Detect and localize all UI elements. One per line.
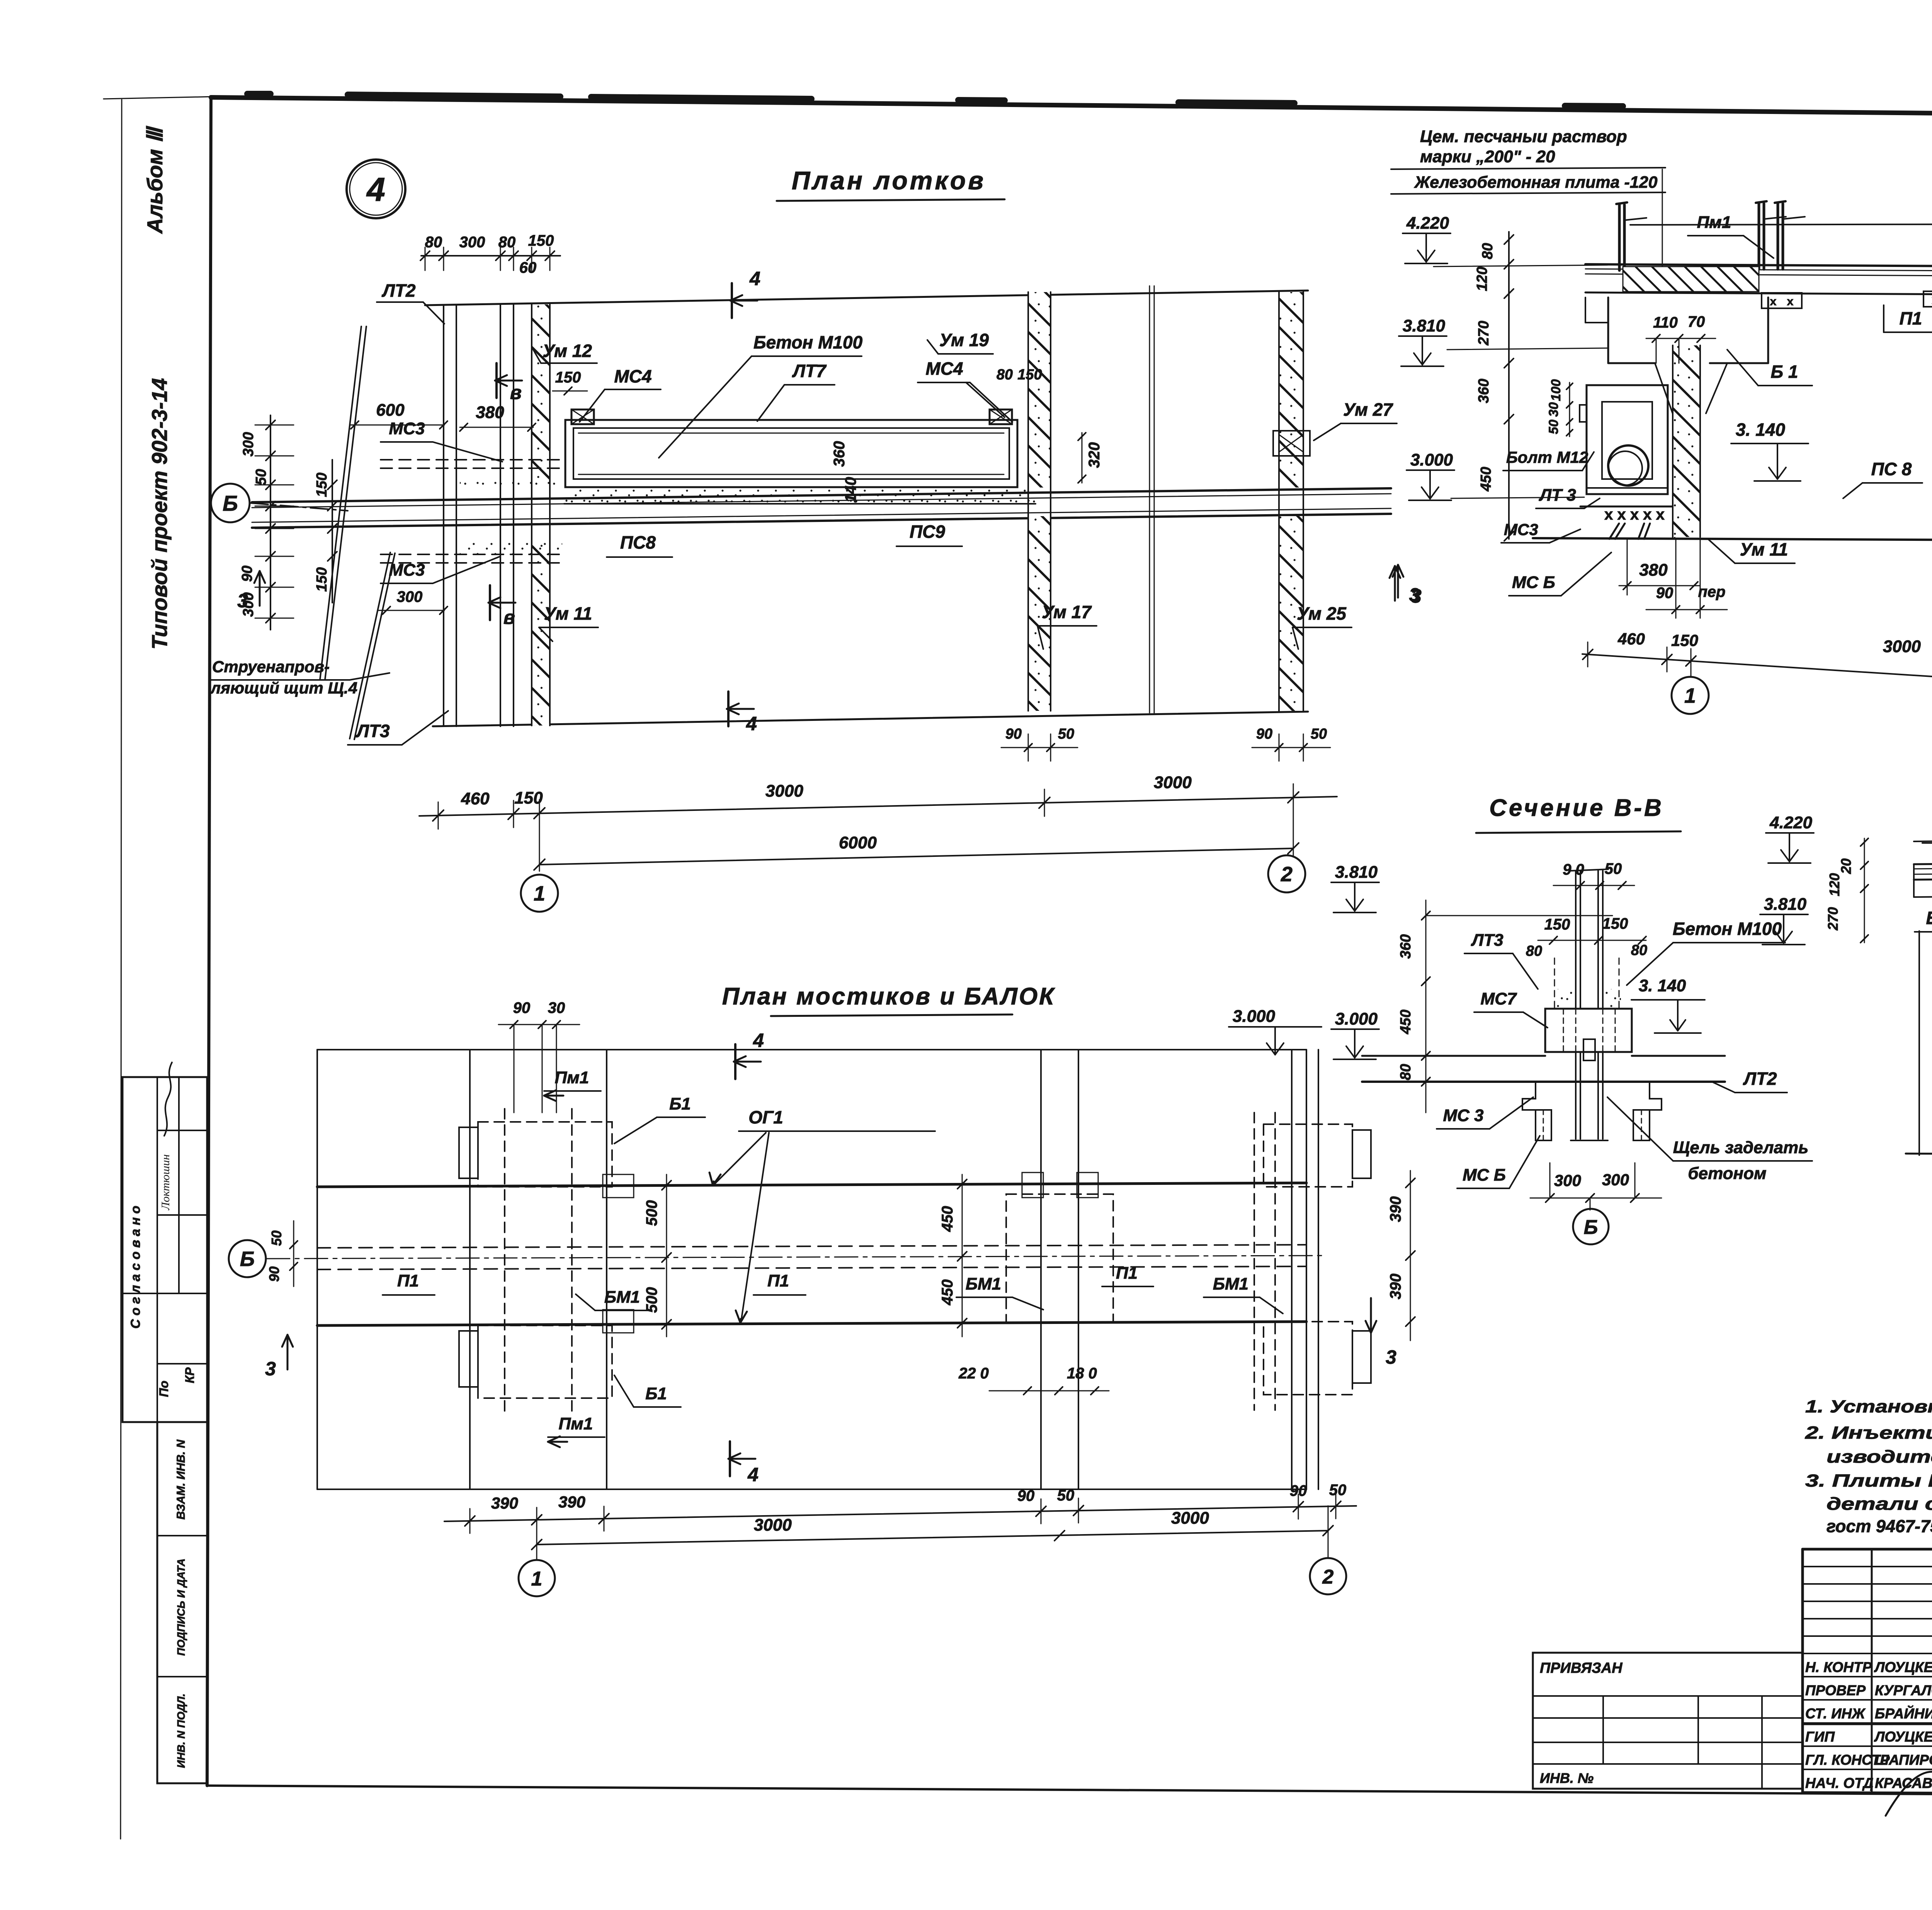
svg-text:МС4: МС4 bbox=[925, 359, 963, 379]
svg-text:6000: 6000 bbox=[839, 833, 877, 852]
svg-text:80: 80 bbox=[1526, 943, 1542, 959]
svg-text:2: 2 bbox=[1281, 863, 1293, 886]
svg-text:Б: Б bbox=[223, 491, 238, 515]
svg-text:3. Плиты П1 привариваются: 3. Плиты П1 привариваются к балкам через… bbox=[1805, 1471, 1932, 1490]
svg-text:ИНВ. N ПОДЛ.: ИНВ. N ПОДЛ. bbox=[175, 1694, 187, 1768]
svg-text:ЛТ2: ЛТ2 bbox=[381, 280, 416, 301]
svg-text:30: 30 bbox=[1546, 402, 1561, 417]
svg-text:КУРГАЛОВА: КУРГАЛОВА bbox=[1875, 1682, 1932, 1698]
svg-text:Н. КОНТР: Н. КОНТР bbox=[1805, 1659, 1872, 1675]
svg-text:П1: П1 bbox=[397, 1271, 419, 1290]
svg-text:ОГ1: ОГ1 bbox=[748, 1107, 783, 1127]
svg-text:Типовой проект 902-3-14: Типовой проект 902-3-14 bbox=[147, 378, 172, 650]
svg-text:70: 70 bbox=[1688, 313, 1705, 330]
svg-text:150: 150 bbox=[1602, 915, 1628, 932]
svg-text:ЛТ 3: ЛТ 3 bbox=[1539, 486, 1576, 505]
svg-text:х: х bbox=[1770, 295, 1777, 308]
svg-text:3.000: 3.000 bbox=[1410, 450, 1453, 469]
svg-text:600: 600 bbox=[376, 401, 405, 420]
svg-text:П1: П1 bbox=[1116, 1264, 1138, 1283]
svg-text:Пм1: Пм1 bbox=[559, 1414, 593, 1433]
svg-text:МС3: МС3 bbox=[1504, 520, 1538, 539]
svg-text:50: 50 bbox=[1546, 420, 1561, 434]
svg-text:1: 1 bbox=[534, 882, 545, 905]
svg-text:План лотков: План лотков bbox=[792, 166, 986, 195]
svg-text:марки „200" - 20: марки „200" - 20 bbox=[1420, 147, 1555, 166]
svg-text:360: 360 bbox=[1476, 379, 1492, 403]
svg-text:3: 3 bbox=[1409, 585, 1420, 605]
svg-text:Локтюшин: Локтюшин bbox=[159, 1154, 172, 1210]
svg-text:СТ. ИНЖ: СТ. ИНЖ bbox=[1805, 1706, 1866, 1721]
svg-text:ВЗАМ. ИНВ. N: ВЗАМ. ИНВ. N bbox=[175, 1439, 187, 1519]
svg-text:390: 390 bbox=[558, 1493, 585, 1511]
svg-text:90: 90 bbox=[513, 999, 531, 1016]
svg-text:в: в bbox=[510, 382, 522, 403]
svg-text:НАЧ. ОТД: НАЧ. ОТД bbox=[1805, 1775, 1873, 1791]
svg-text:Пм1: Пм1 bbox=[555, 1068, 589, 1087]
svg-text:390: 390 bbox=[1387, 1196, 1404, 1222]
svg-text:МС4: МС4 bbox=[614, 366, 651, 386]
svg-text:140: 140 bbox=[842, 477, 859, 503]
svg-text:500: 500 bbox=[643, 1200, 660, 1226]
svg-text:ПС8: ПС8 bbox=[620, 532, 656, 552]
svg-text:30: 30 bbox=[548, 999, 565, 1016]
svg-text:300: 300 bbox=[397, 588, 423, 605]
svg-text:Болт М12: Болт М12 bbox=[1506, 448, 1588, 466]
svg-text:Струенапров-: Струенапров- bbox=[212, 658, 330, 676]
svg-text:18 0: 18 0 bbox=[1067, 1365, 1097, 1382]
svg-text:ШАПИРО: ШАПИРО bbox=[1875, 1752, 1932, 1768]
svg-text:390: 390 bbox=[1387, 1274, 1404, 1300]
svg-text:4: 4 bbox=[747, 1464, 759, 1485]
svg-text:КР: КР bbox=[183, 1367, 197, 1383]
svg-text:360: 360 bbox=[831, 441, 848, 467]
svg-text:ЛТ3: ЛТ3 bbox=[1471, 931, 1503, 950]
svg-text:ПРИВЯЗАН: ПРИВЯЗАН bbox=[1540, 1660, 1623, 1676]
svg-text:Б1: Б1 bbox=[645, 1384, 667, 1403]
svg-text:Б: Б bbox=[1584, 1216, 1598, 1239]
svg-text:120: 120 bbox=[1827, 873, 1842, 896]
svg-text:Пм1: Пм1 bbox=[1697, 213, 1731, 232]
svg-text:Ум 17: Ум 17 bbox=[1042, 602, 1092, 622]
svg-text:80: 80 bbox=[425, 234, 442, 251]
svg-text:ЛТ2: ЛТ2 bbox=[1743, 1069, 1777, 1089]
svg-text:3.810: 3.810 bbox=[1764, 895, 1807, 914]
svg-text:2. Инъектирование стыка б: 2. Инъектирование стыка балки Б1 со стен… bbox=[1805, 1423, 1932, 1443]
svg-text:300: 300 bbox=[240, 432, 257, 456]
svg-text:1: 1 bbox=[531, 1568, 543, 1590]
svg-text:ПОДПИСЬ И ДАТА: ПОДПИСЬ И ДАТА bbox=[175, 1558, 187, 1656]
svg-text:4.220: 4.220 bbox=[1406, 214, 1449, 233]
svg-text:С о г л а с о в а н о: С о г л а с о в а н о bbox=[128, 1206, 143, 1329]
svg-text:100: 100 bbox=[1549, 379, 1563, 401]
svg-text:3.810: 3.810 bbox=[1403, 316, 1446, 335]
svg-text:4: 4 bbox=[749, 268, 760, 289]
svg-text:50: 50 bbox=[1058, 726, 1074, 742]
svg-text:бетоном: бетоном bbox=[1688, 1164, 1766, 1183]
svg-text:МС 3: МС 3 bbox=[1443, 1106, 1483, 1125]
svg-text:22 0: 22 0 bbox=[958, 1365, 989, 1382]
svg-text:80: 80 bbox=[1480, 243, 1496, 259]
svg-text:90: 90 bbox=[1005, 726, 1022, 742]
svg-text:БМ1: БМ1 bbox=[1213, 1274, 1248, 1293]
svg-text:детали сварным швом hш=: детали сварным швом hш=6мм электродом ти… bbox=[1827, 1494, 1932, 1514]
svg-text:3000: 3000 bbox=[1171, 1509, 1209, 1528]
svg-text:80: 80 bbox=[1631, 942, 1647, 958]
svg-text:3: 3 bbox=[1386, 1346, 1396, 1368]
svg-text:500: 500 bbox=[643, 1287, 660, 1313]
svg-text:Б: Б bbox=[240, 1247, 255, 1271]
svg-text:гост 9467-75: гост 9467-75 bbox=[1827, 1516, 1932, 1536]
svg-text:150: 150 bbox=[1544, 916, 1570, 933]
svg-text:90: 90 bbox=[1656, 585, 1673, 602]
svg-text:3000: 3000 bbox=[1154, 773, 1192, 792]
svg-text:3. 140: 3. 140 bbox=[1639, 976, 1686, 995]
svg-text:50: 50 bbox=[253, 469, 269, 485]
svg-text:80: 80 bbox=[1398, 1064, 1414, 1080]
svg-text:3: 3 bbox=[265, 1358, 276, 1380]
svg-text:ПС9: ПС9 bbox=[910, 522, 945, 542]
svg-text:3000: 3000 bbox=[765, 782, 803, 800]
svg-text:в: в bbox=[503, 607, 515, 628]
svg-text:Железобетонная плита -120: Железобетонная плита -120 bbox=[1414, 173, 1658, 192]
svg-text:450: 450 bbox=[1478, 467, 1494, 491]
svg-text:Бетон М100: Бетон М100 bbox=[753, 332, 863, 352]
svg-text:360: 360 bbox=[1398, 934, 1414, 958]
svg-text:80: 80 bbox=[997, 367, 1013, 383]
svg-text:x x x x x: x x x x x bbox=[1604, 506, 1665, 523]
svg-text:Ум 19: Ум 19 bbox=[939, 330, 989, 350]
svg-text:150: 150 bbox=[314, 567, 330, 591]
svg-text:120: 120 bbox=[1474, 267, 1490, 291]
svg-text:50: 50 bbox=[1057, 1487, 1075, 1504]
svg-text:ляющий щит Щ.4: ляющий щит Щ.4 bbox=[210, 679, 357, 697]
svg-text:50: 50 bbox=[1311, 726, 1327, 742]
svg-text:Б 1: Б 1 bbox=[1771, 362, 1798, 382]
svg-text:пер: пер bbox=[1698, 583, 1725, 600]
svg-text:380: 380 bbox=[1639, 561, 1668, 579]
svg-text:ПРОВЕР: ПРОВЕР bbox=[1805, 1682, 1866, 1698]
svg-text:90: 90 bbox=[1256, 726, 1272, 742]
svg-text:Ум 11: Ум 11 bbox=[1740, 539, 1788, 559]
svg-text:МС3: МС3 bbox=[389, 419, 425, 438]
svg-text:3000: 3000 bbox=[754, 1516, 792, 1534]
svg-text:110: 110 bbox=[1653, 314, 1678, 331]
svg-text:БМ1: БМ1 bbox=[966, 1274, 1001, 1293]
svg-text:Ум 12: Ум 12 bbox=[543, 341, 592, 361]
svg-text:300: 300 bbox=[1554, 1171, 1581, 1190]
svg-text:Цем. песчаныи раствор: Цем. песчаныи раствор bbox=[1420, 127, 1627, 146]
svg-text:90: 90 bbox=[1290, 1482, 1307, 1499]
svg-text:4: 4 bbox=[746, 713, 757, 734]
svg-text:3.000: 3.000 bbox=[1335, 1009, 1378, 1028]
svg-text:3000: 3000 bbox=[1883, 637, 1921, 656]
svg-text:150: 150 bbox=[314, 472, 330, 497]
svg-text:460: 460 bbox=[461, 789, 490, 808]
svg-text:Ум 11: Ум 11 bbox=[544, 603, 592, 624]
svg-text:450: 450 bbox=[939, 1280, 956, 1306]
svg-text:изводится через тампонажн: изводится через тампонажные трубки в бал… bbox=[1827, 1447, 1932, 1466]
svg-text:3: 3 bbox=[237, 590, 248, 612]
svg-text:150: 150 bbox=[528, 232, 554, 249]
svg-text:450: 450 bbox=[939, 1206, 956, 1232]
svg-text:Ум 25: Ум 25 bbox=[1297, 603, 1347, 624]
svg-text:50: 50 bbox=[1329, 1482, 1347, 1499]
svg-text:3. 140: 3. 140 bbox=[1736, 420, 1785, 440]
svg-text:ЛОУЦКЕР: ЛОУЦКЕР bbox=[1874, 1659, 1932, 1675]
svg-text:МС Б: МС Б bbox=[1463, 1166, 1506, 1184]
svg-text:4: 4 bbox=[753, 1030, 764, 1051]
svg-text:План мостиков и БАЛОК: План мостиков и БАЛОК bbox=[722, 983, 1056, 1010]
svg-text:320: 320 bbox=[1086, 442, 1103, 468]
svg-text:Б1: Б1 bbox=[669, 1094, 691, 1113]
svg-text:х: х bbox=[1787, 295, 1794, 308]
svg-text:БМ1: БМ1 bbox=[604, 1288, 640, 1307]
svg-text:П1: П1 bbox=[1900, 308, 1922, 328]
svg-text:ЛТ7: ЛТ7 bbox=[792, 361, 827, 381]
svg-text:150: 150 bbox=[1017, 367, 1042, 383]
svg-text:Щель заделать: Щель заделать bbox=[1673, 1138, 1808, 1157]
svg-text:3.810: 3.810 bbox=[1335, 863, 1378, 882]
svg-text:ЛОУЦКЕР: ЛОУЦКЕР bbox=[1874, 1729, 1932, 1745]
svg-text:ГИП: ГИП bbox=[1805, 1729, 1835, 1745]
svg-text:1. Установка балок Б1 произ: 1. Установка балок Б1 производится с тща… bbox=[1805, 1397, 1932, 1416]
svg-text:390: 390 bbox=[491, 1494, 518, 1512]
svg-text:80: 80 bbox=[498, 234, 516, 251]
svg-text:ИНВ. №: ИНВ. № bbox=[1540, 1770, 1594, 1786]
svg-text:450: 450 bbox=[1398, 1009, 1414, 1034]
svg-text:Сечение В-В: Сечение В-В bbox=[1489, 795, 1664, 821]
svg-text:ПС 8: ПС 8 bbox=[1871, 459, 1912, 479]
svg-text:Б 1: Б 1 bbox=[1926, 908, 1932, 928]
svg-text:60: 60 bbox=[519, 259, 537, 276]
svg-text:БРАЙНИНА: БРАЙНИНА bbox=[1875, 1705, 1932, 1721]
svg-text:По: По bbox=[157, 1381, 171, 1397]
svg-text:150: 150 bbox=[1671, 631, 1698, 649]
svg-text:460: 460 bbox=[1617, 630, 1645, 648]
svg-text:3.000: 3.000 bbox=[1233, 1007, 1276, 1026]
svg-text:1: 1 bbox=[1684, 684, 1696, 707]
svg-text:МС3: МС3 bbox=[389, 561, 425, 579]
svg-text:МС7: МС7 bbox=[1481, 989, 1517, 1008]
svg-text:50: 50 bbox=[269, 1230, 284, 1246]
svg-text:4.220: 4.220 bbox=[1769, 813, 1813, 832]
svg-text:270: 270 bbox=[1825, 907, 1841, 931]
svg-text:90: 90 bbox=[239, 566, 255, 582]
svg-text:90: 90 bbox=[1017, 1487, 1035, 1504]
svg-text:90: 90 bbox=[266, 1266, 282, 1282]
svg-text:270: 270 bbox=[1476, 321, 1492, 345]
svg-text:Ум 27: Ум 27 bbox=[1343, 399, 1393, 420]
svg-text:П1: П1 bbox=[767, 1271, 789, 1290]
svg-text:Бетон М100: Бетон М100 bbox=[1673, 919, 1782, 939]
svg-text:Альбом Ⅲ: Альбом Ⅲ bbox=[143, 126, 167, 234]
svg-text:150: 150 bbox=[555, 369, 581, 386]
svg-text:4: 4 bbox=[366, 171, 385, 208]
svg-text:2: 2 bbox=[1322, 1566, 1334, 1588]
svg-text:20: 20 bbox=[1838, 858, 1854, 874]
svg-text:300: 300 bbox=[1602, 1171, 1629, 1189]
svg-text:150: 150 bbox=[514, 788, 543, 807]
svg-text:МС Б: МС Б bbox=[1512, 573, 1555, 592]
svg-text:380: 380 bbox=[476, 403, 504, 422]
svg-text:ЛТ3: ЛТ3 bbox=[355, 721, 390, 741]
svg-text:300: 300 bbox=[459, 234, 485, 251]
